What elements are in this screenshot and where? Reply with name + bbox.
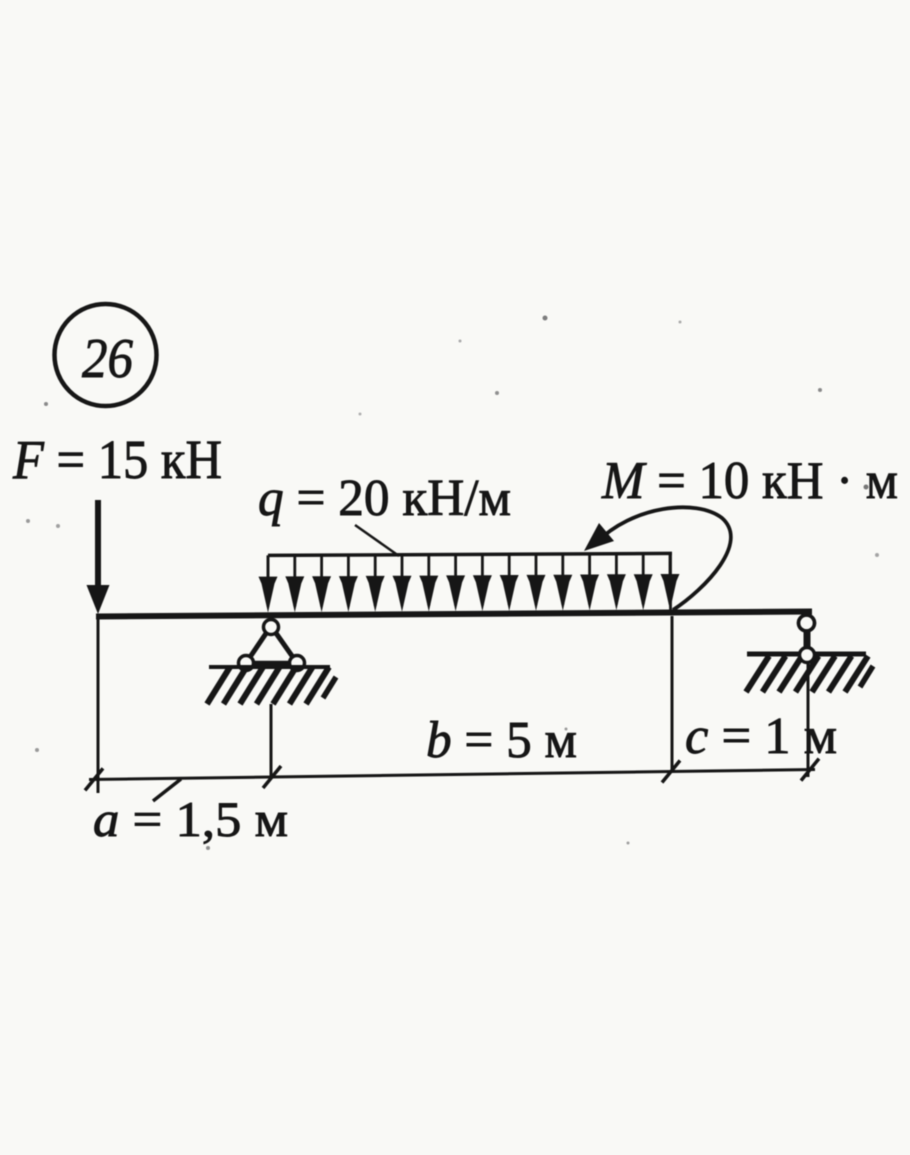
pin support ground hatching (207, 667, 230, 704)
moment M curved arrow (584, 507, 731, 610)
vertical line at load right end (671, 616, 674, 772)
svg-text:26: 26 (82, 328, 133, 390)
load arrow 8 (446, 555, 465, 612)
pin support ground line (209, 665, 330, 669)
roller support link (804, 629, 811, 649)
load arrow 14 (607, 554, 626, 611)
distributed load right edge (669, 553, 672, 610)
load arrow 11 (527, 554, 546, 611)
load arrow 6 (393, 555, 412, 612)
load arrow 2 (285, 555, 304, 612)
load arrow 16 (661, 553, 680, 610)
load arrow 4 (339, 555, 358, 612)
load arrow 15 (634, 554, 653, 611)
roller stem to dimension line (807, 661, 810, 777)
roller ground hatching (746, 656, 769, 692)
svg-text:c = 1 м: c = 1 м (685, 708, 837, 765)
problem number circle 26 (55, 304, 157, 406)
dimension tick at x=94 (85, 768, 103, 790)
dimension line (89, 770, 815, 780)
roller top circle outline over beam (799, 615, 815, 631)
load arrow 7 (419, 555, 438, 612)
svg-text:b = 5 м: b = 5 м (426, 712, 577, 769)
pin support triangle (239, 620, 305, 671)
svg-text:M = 10 кН · м: M = 10 кН · м (601, 452, 898, 510)
svg-text:q = 20 кН/м: q = 20 кН/м (258, 470, 511, 527)
load arrow 3 (312, 555, 331, 612)
roller support bottom circle (800, 648, 815, 663)
dimension tick at x=810 (801, 759, 819, 781)
load arrow 9 (473, 554, 492, 611)
roller support top hinge circle (under beam) (799, 615, 815, 631)
leader slash for label a (153, 779, 181, 801)
load arrow 12 (553, 554, 572, 611)
force F arrow (87, 500, 110, 614)
distributed load left edge (267, 555, 270, 606)
scan noise specks (44, 402, 48, 406)
beam (96, 612, 812, 617)
dimension tick at x=272 (263, 766, 281, 788)
svg-text:a = 1,5 м: a = 1,5 м (93, 791, 288, 847)
distributed load top line (268, 553, 672, 555)
load arrow 10 (500, 554, 519, 611)
load arrow 5 (366, 555, 385, 612)
left end vertical line (97, 618, 100, 793)
leader line from q label to load (355, 525, 399, 556)
load arrow 1 (259, 555, 278, 612)
roller support ground line (747, 652, 866, 657)
load arrow 13 (580, 554, 599, 611)
dimension tick at x=671 (662, 761, 680, 783)
svg-text:F = 15 кН: F = 15 кН (12, 429, 222, 490)
pin support stem to dimension line (270, 704, 273, 777)
